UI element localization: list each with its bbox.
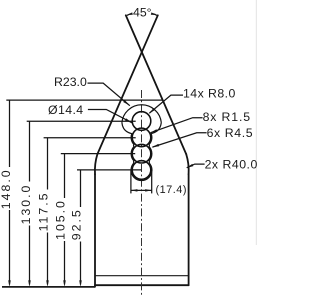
dim 148.0 extension (6, 99, 162, 101)
right vertical edge (188, 174, 190, 285)
svg-text:105.0: 105.0 (54, 199, 68, 240)
dim 92.5 extension (77, 169, 142, 171)
rotated dimension texts (0, 168, 84, 240)
left R40.0 arc (95, 154, 98, 174)
left arc stub (127, 14, 132, 16)
big R23.0 arc (122, 105, 161, 123)
right arrow of 45 (151, 12, 157, 15)
arrow 117.5 (46, 280, 49, 287)
right arc stub (153, 14, 158, 16)
circle 2 (132, 128, 151, 147)
dimension baseline (2, 286, 95, 288)
left vertical edge (94, 174, 96, 287)
arrow 130.0 (28, 280, 31, 287)
svg-text:6x R4.5: 6x R4.5 (207, 126, 254, 140)
circle 1 (132, 112, 151, 131)
svg-text:92.5: 92.5 (70, 208, 84, 240)
right edge faint line (255, 0, 257, 245)
inner bottom line (95, 275, 189, 277)
circle 3 (132, 144, 151, 163)
svg-text:2x R40.0: 2x R40.0 (205, 158, 257, 172)
arrow 92.5 (79, 280, 82, 287)
slant edge A (left-top to right R40 tangent), 45-deg extension (126, 15, 186, 154)
right R40.0 arc (186, 154, 189, 174)
svg-text:14x R8.0: 14x R8.0 (183, 87, 236, 101)
baseline arrows (8, 280, 82, 287)
dimension line (131, 189, 152, 191)
svg-text:(17.4): (17.4) (156, 184, 188, 196)
circle 4 (132, 161, 151, 180)
svg-text:8x R1.5: 8x R1.5 (203, 110, 251, 124)
arrow 148.0 (8, 280, 11, 287)
slant edge B (right-top to left R40 tangent), 45-deg extension (97, 15, 157, 154)
svg-text:117.5: 117.5 (37, 192, 51, 232)
svg-text:130.0: 130.0 (19, 184, 33, 225)
scalloped profile (122, 123, 161, 181)
svg-text:Ø14.4: Ø14.4 (48, 103, 84, 117)
left arrow of 45 (127, 12, 133, 15)
bottom edge (95, 284, 189, 286)
dim 105.0 extension (61, 153, 135, 155)
centerline (dash-dot) (141, 90, 143, 296)
dim 130.0 extension (27, 120, 136, 122)
left arrow 17.4 (131, 189, 138, 192)
svg-text:148.0: 148.0 (0, 168, 13, 209)
right arrow 17.4 (145, 189, 152, 192)
dim 117.5 extension (44, 137, 136, 139)
svg-text:45°: 45° (133, 6, 152, 20)
svg-text:R23.0: R23.0 (54, 75, 87, 89)
arrow 105.0 (63, 280, 66, 287)
right extension (151, 173, 153, 194)
left extension (130, 171, 132, 194)
